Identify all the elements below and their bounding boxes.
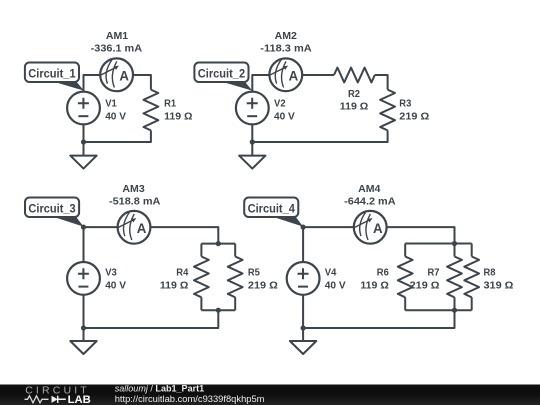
svg-text:40 V: 40 V	[325, 281, 346, 292]
svg-text:Circuit_2: Circuit_2	[198, 67, 245, 81]
svg-text:A: A	[373, 221, 383, 236]
svg-text:-118.3 mA: -118.3 mA	[260, 44, 312, 55]
svg-text:V3: V3	[105, 268, 117, 279]
svg-text:119 Ω: 119 Ω	[164, 112, 192, 123]
svg-text:-336.1 mA: -336.1 mA	[91, 44, 143, 55]
svg-text:V1: V1	[105, 98, 117, 109]
svg-text:AM4: AM4	[358, 184, 381, 195]
svg-text:R5: R5	[248, 268, 260, 279]
svg-text:319 Ω: 319 Ω	[484, 281, 514, 292]
svg-text:40 V: 40 V	[105, 281, 126, 292]
svg-text:119 Ω: 119 Ω	[160, 281, 188, 292]
svg-text:Circuit_3: Circuit_3	[28, 202, 75, 216]
svg-text:A: A	[137, 221, 147, 236]
svg-text:R6: R6	[377, 268, 389, 279]
svg-text:R4: R4	[176, 268, 188, 279]
svg-text:LAB: LAB	[68, 394, 91, 405]
svg-text:40 V: 40 V	[274, 112, 295, 123]
svg-text:AM2: AM2	[275, 31, 298, 42]
svg-text:V4: V4	[325, 268, 337, 279]
svg-text:-644.2 mA: -644.2 mA	[344, 197, 396, 208]
svg-text:AM3: AM3	[122, 184, 145, 195]
svg-text:219 Ω: 219 Ω	[410, 281, 440, 292]
svg-text:219 Ω: 219 Ω	[248, 281, 278, 292]
svg-text:V2: V2	[274, 98, 286, 109]
svg-text:A: A	[119, 68, 129, 83]
svg-text:R8: R8	[484, 268, 496, 279]
svg-text:salloumj / Lab1_Part1: salloumj / Lab1_Part1	[115, 384, 205, 395]
svg-text:R1: R1	[164, 98, 176, 109]
svg-text:A: A	[289, 68, 299, 83]
svg-text:http://circuitlab.com/c9339f8q: http://circuitlab.com/c9339f8qkhp5m	[115, 394, 265, 405]
svg-text:119 Ω: 119 Ω	[360, 281, 388, 292]
svg-text:119 Ω: 119 Ω	[340, 101, 368, 112]
svg-text:Circuit_4: Circuit_4	[248, 202, 295, 216]
svg-text:R2: R2	[348, 89, 360, 100]
svg-text:Circuit_1: Circuit_1	[28, 67, 75, 81]
svg-text:40 V: 40 V	[105, 112, 126, 123]
svg-text:219 Ω: 219 Ω	[399, 112, 429, 123]
svg-text:R3: R3	[399, 99, 411, 110]
svg-text:AM1: AM1	[106, 31, 129, 42]
svg-text:R7: R7	[428, 268, 440, 279]
svg-text:-518.8 mA: -518.8 mA	[109, 197, 161, 208]
